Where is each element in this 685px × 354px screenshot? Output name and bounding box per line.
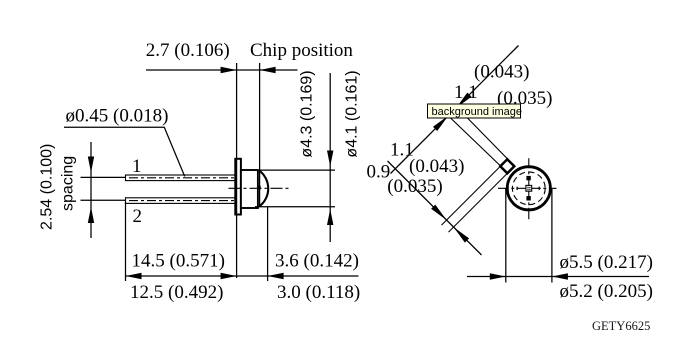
D2 arrow pointing SE — [431, 205, 447, 221]
dia 5.5 right extension line — [551, 189, 553, 283]
tick right on centerline — [538, 187, 540, 190]
svg-text:2.7 (0.106): 2.7 (0.106) — [146, 40, 230, 61]
flange face extension line — [236, 63, 238, 278]
dome (epoxy lens arc) — [259, 170, 268, 206]
flange — [235, 159, 241, 215]
lead end extension line — [125, 202, 127, 281]
svg-text:3.6 (0.142): 3.6 (0.142) — [275, 251, 359, 272]
tab length dimension line D2 — [388, 161, 482, 255]
spacing dimension line — [90, 142, 92, 238]
body — [241, 170, 258, 208]
svg-text:(0.035): (0.035) — [387, 176, 442, 197]
svg-text:3.0 (0.118): 3.0 (0.118) — [277, 282, 360, 303]
lead 2 centerline — [129, 200, 235, 202]
dia 4.3 top extension line — [260, 169, 336, 171]
svg-text:spacing: spacing — [60, 156, 77, 211]
tab width dimension line D1 — [391, 46, 519, 174]
svg-text:ø0.45 (0.018): ø0.45 (0.018) — [66, 106, 169, 127]
spacing up arrow — [88, 207, 94, 223]
dia up arrow — [327, 209, 333, 225]
svg-text:ø5.5 (0.217): ø5.5 (0.217) — [560, 252, 653, 273]
chip square front view — [526, 185, 532, 191]
D1 arrow pointing SW — [456, 93, 472, 109]
D2 arrow pointing NW — [454, 227, 470, 243]
slot line L1 — [449, 117, 501, 167]
svg-text:12.5 (0.492): 12.5 (0.492) — [130, 282, 223, 303]
svg-text:(0.043): (0.043) — [409, 156, 464, 177]
chip position extension line — [259, 63, 261, 207]
spacing extension line upper — [81, 176, 127, 178]
chip (die) — [258, 186, 261, 190]
dia 5.5 dimension line — [467, 276, 649, 278]
spacing extension line lower — [81, 199, 127, 201]
dimension 2.7 left-pointing arrow — [260, 67, 276, 73]
svg-text:ø4.3 (0.169): ø4.3 (0.169) — [299, 70, 316, 157]
horizontal centerline of circle — [498, 187, 557, 189]
lead 1 centerline — [129, 177, 235, 179]
anode tab diamond — [500, 159, 514, 173]
bottom dimension line — [126, 275, 359, 277]
vertical centerline of circle — [528, 158, 530, 219]
dia 5.5 left extension line — [505, 189, 507, 283]
svg-text:2.54 (0.100): 2.54 (0.100) — [39, 144, 56, 230]
bond post top — [526, 176, 530, 180]
dimension 2.7 line — [146, 69, 298, 71]
dia 5.5 left-pointing arrow — [552, 273, 568, 279]
chip dots — [527, 187, 530, 190]
slot line L2 — [466, 117, 508, 160]
dia 5.5 right-pointing arrow — [490, 273, 506, 279]
tab extension line M1 — [442, 167, 501, 226]
D1 arrow pointing NE — [433, 116, 449, 132]
bottom right-pointing arrow at flange — [221, 273, 237, 279]
dia down arrow — [327, 151, 333, 167]
dome right extension line — [267, 207, 269, 281]
leader for dia 0.45 — [64, 127, 185, 176]
svg-text:ø5.2 (0.205): ø5.2 (0.205) — [560, 281, 653, 302]
tab extension line M2 — [449, 174, 508, 233]
svg-text:GETY6625: GETY6625 — [592, 319, 650, 333]
dimension 2.7 right-pointing arrow — [221, 67, 237, 73]
svg-text:ø4.1 (0.161): ø4.1 (0.161) — [344, 70, 361, 157]
svg-text:1: 1 — [132, 156, 142, 177]
svg-text:(0.043): (0.043) — [474, 62, 529, 83]
lead 2 outline — [126, 198, 237, 204]
bottom left-pointing arrow at dome — [268, 273, 284, 279]
svg-text:Chip position: Chip position — [250, 40, 353, 61]
dia 4.3 bottom extension line — [255, 206, 335, 208]
bond post bottom — [526, 196, 530, 200]
lead 1 outline — [126, 175, 237, 181]
svg-text:2: 2 — [133, 206, 143, 227]
body horizontal centerline — [229, 187, 291, 189]
inner dashed circle (body) — [512, 172, 545, 205]
svg-text:14.5 (0.571): 14.5 (0.571) — [132, 251, 225, 272]
spacing down arrow — [88, 157, 94, 173]
dia dimension line vertical — [329, 73, 331, 242]
outer circle (flange) — [507, 167, 550, 210]
svg-text:background image: background image — [432, 106, 523, 118]
bottom left-pointing arrow at lead end — [126, 273, 142, 279]
tick left on centerline — [516, 187, 518, 190]
background image placeholder box — [428, 104, 523, 118]
